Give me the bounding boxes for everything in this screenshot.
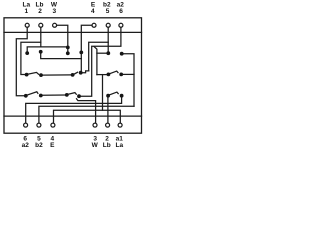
- wire E4 left-down through D to J: [81, 25, 92, 72]
- wire bottom5 up-right to x134: [39, 106, 134, 123]
- arm G: [28, 72, 38, 74]
- junction dot C: [66, 46, 70, 50]
- svg-text:W: W: [92, 142, 99, 149]
- wire J jog to alpha vertical: [82, 71, 88, 73]
- svg-text:4: 4: [91, 8, 95, 15]
- svg-text:2: 2: [38, 8, 42, 15]
- junction dot Q: [106, 94, 110, 98]
- svg-text:3: 3: [52, 8, 56, 15]
- wire Q down to bottom 2: [107, 98, 109, 124]
- svg-text:b2: b2: [35, 142, 43, 149]
- junction dot N: [39, 94, 43, 98]
- wire x102.5 down to E-a1 line: [102, 75, 104, 111]
- top connector strip line: [4, 31, 142, 33]
- arm O: [68, 93, 76, 95]
- wire La1 down-left-down to M: [16, 27, 27, 96]
- wire W3 right-down to C: [57, 25, 68, 46]
- svg-text:1: 1: [24, 8, 28, 15]
- wire a2-line hook down x97 to K row: [94, 47, 97, 75]
- outer border: [4, 18, 142, 133]
- terminal E 4 top circle: [92, 23, 96, 27]
- wire R down-left to bottom 6: [26, 97, 122, 123]
- terminal b2 5 top circle: [106, 23, 110, 27]
- junction dot D: [79, 51, 83, 55]
- wire C to C2: [67, 49, 69, 52]
- arm Q: [110, 92, 119, 95]
- bus from A to C: [27, 47, 68, 52]
- bottom circle 6 a2: [24, 123, 28, 127]
- bottom circle 4 E: [51, 123, 55, 127]
- svg-text:a2: a2: [22, 142, 30, 149]
- wire x97 corner right to dot K: [97, 74, 107, 76]
- wire b2-5 down to dot E5: [107, 27, 109, 51]
- wire Lb2 down to bus: [40, 27, 42, 47]
- junction dot M: [24, 94, 28, 98]
- bottom circle 5 b2: [37, 123, 41, 127]
- junction dot C2: [66, 51, 70, 55]
- junction dot G: [25, 73, 29, 77]
- wire bottom4 up-right to a1: [54, 110, 121, 123]
- junction dot A: [25, 51, 29, 55]
- junction dot O: [65, 93, 69, 97]
- wire B down-right to x81.3: [41, 54, 82, 59]
- arm K: [110, 71, 118, 74]
- junction dot H: [39, 73, 43, 77]
- terminal Lb 2 top circle: [39, 23, 43, 27]
- bottom connector strip line: [4, 115, 142, 117]
- junction dot B: [39, 50, 43, 54]
- wire F right-down to bottom b2 line: [123, 54, 134, 106]
- bottom circle a1 La: [118, 123, 122, 127]
- wire terminal3 up-left with tip: [77, 99, 96, 123]
- junction dot R: [120, 94, 124, 98]
- wire x97 branch right to dot E5: [97, 52, 107, 54]
- terminal W 3 top circle: [53, 23, 57, 27]
- wire a2-6 down-left-down to P: [81, 27, 121, 96]
- junction dot F: [120, 52, 124, 56]
- wire H to I: [43, 74, 71, 76]
- bottom circle 2 Lb: [106, 123, 110, 127]
- junction dot K: [107, 73, 111, 77]
- wire G feed corner from x20.9: [21, 42, 41, 74]
- svg-text:La: La: [116, 142, 124, 149]
- junction dot J: [79, 71, 83, 75]
- svg-text:Lb: Lb: [103, 142, 111, 149]
- terminal a2 6 top circle: [119, 23, 123, 27]
- junction dot P: [77, 94, 81, 98]
- svg-text:E: E: [50, 142, 55, 149]
- wire b2 branch left-down: [89, 42, 109, 71]
- junction dot L: [119, 73, 123, 77]
- terminal La 1 top circle: [25, 23, 29, 27]
- svg-text:5: 5: [106, 8, 110, 15]
- junction dot E5: [106, 51, 110, 55]
- wire L right to x134: [123, 73, 134, 75]
- bottom circle 3 W: [93, 123, 97, 127]
- wire N to O: [43, 94, 66, 96]
- arm M to N: [27, 92, 38, 95]
- arm I: [74, 72, 77, 74]
- junction dot I: [71, 73, 75, 77]
- svg-text:6: 6: [119, 8, 123, 15]
